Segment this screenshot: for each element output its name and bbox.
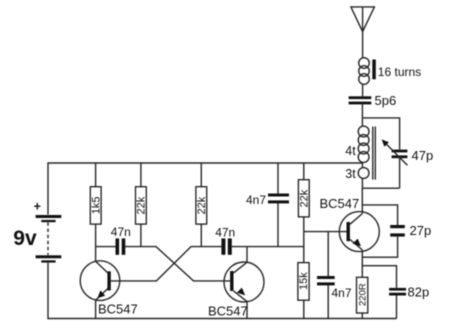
svg-text:27p: 27p [410, 223, 432, 238]
svg-text:47n: 47n [111, 225, 131, 239]
svg-text:BC547: BC547 [208, 304, 248, 319]
svg-text:4n7: 4n7 [246, 193, 266, 207]
svg-text:4t: 4t [345, 144, 356, 158]
svg-text:4n7: 4n7 [332, 286, 352, 300]
svg-text:82p: 82p [408, 285, 430, 300]
svg-text:22k: 22k [196, 196, 208, 214]
svg-text:22k: 22k [299, 189, 311, 207]
svg-text:+: + [34, 200, 41, 214]
svg-text:220R: 220R [358, 283, 369, 306]
svg-text:16 turns: 16 turns [378, 65, 421, 79]
svg-text:9v: 9v [13, 227, 37, 250]
svg-text:3t: 3t [345, 167, 356, 181]
svg-text:5p6: 5p6 [375, 93, 397, 108]
svg-text:47n: 47n [215, 225, 235, 239]
svg-text:22k: 22k [136, 196, 148, 214]
svg-text:15k: 15k [298, 272, 310, 290]
svg-text:1k5: 1k5 [90, 196, 102, 214]
svg-text:BC547: BC547 [320, 196, 360, 211]
svg-text:BC547: BC547 [98, 302, 138, 317]
svg-text:47p: 47p [412, 148, 434, 163]
